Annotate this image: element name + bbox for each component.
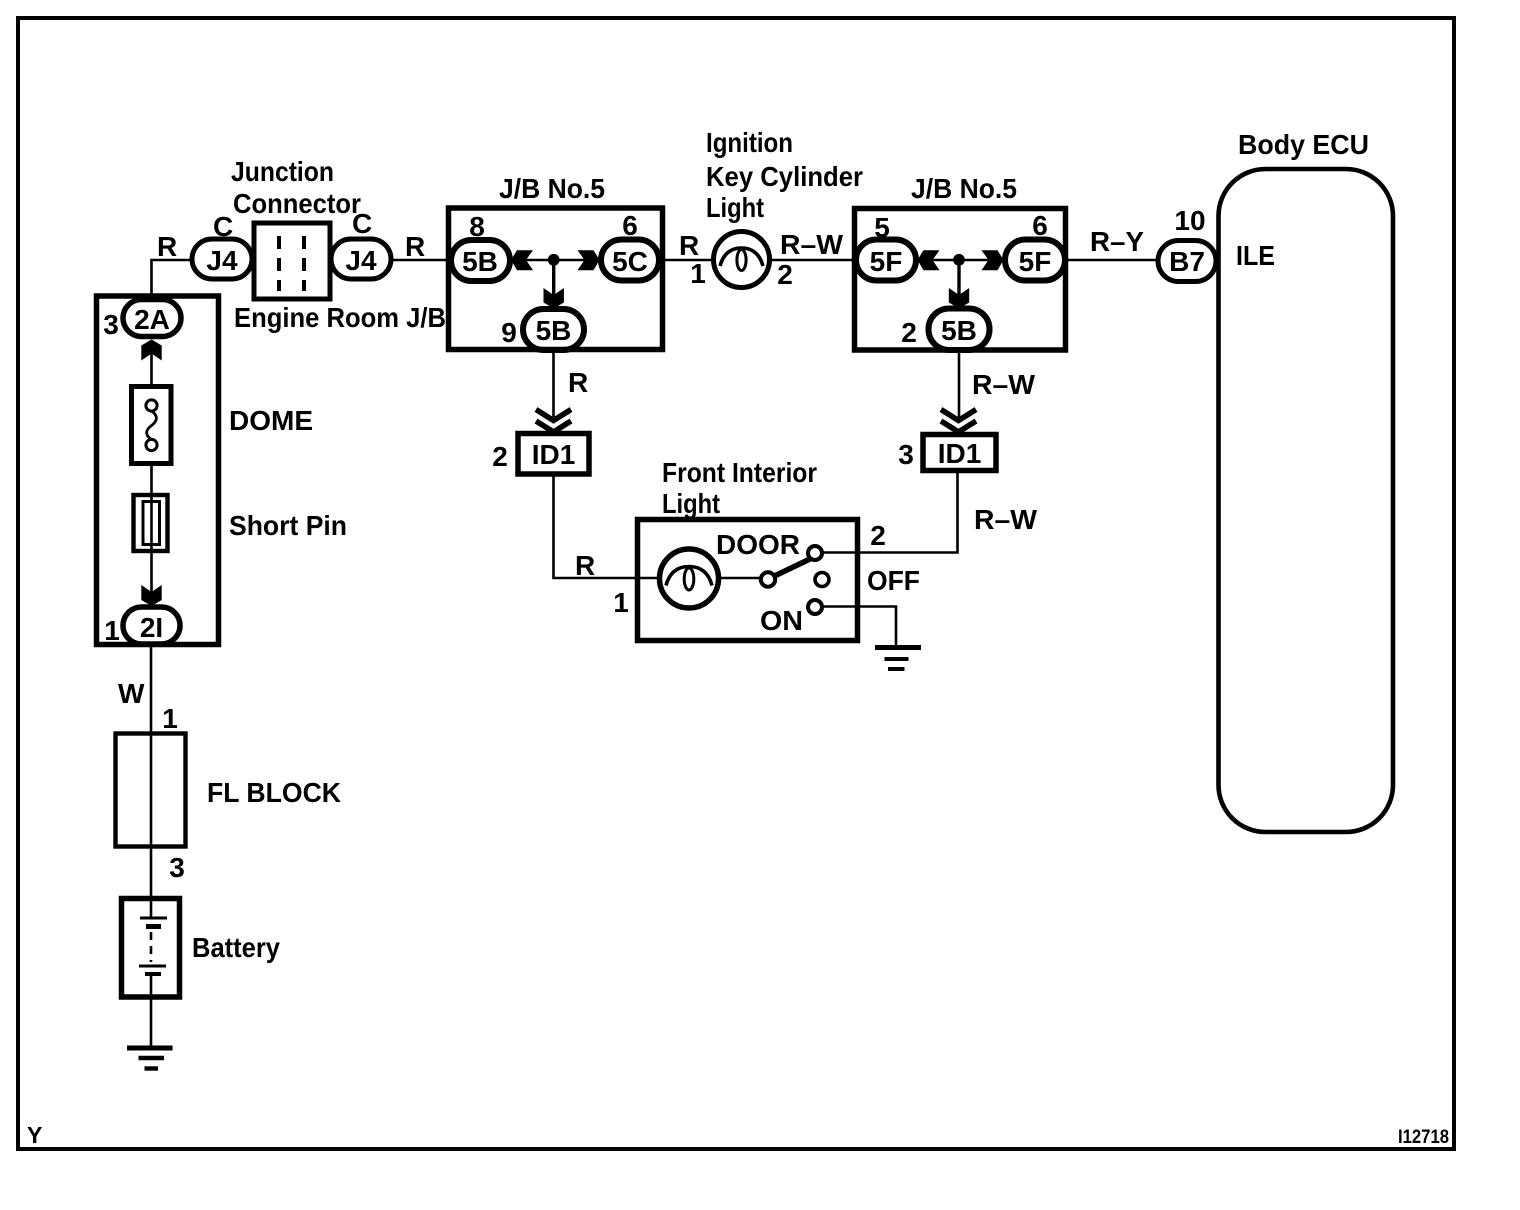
svg-text:2: 2	[492, 441, 508, 472]
FL BLOCK	[116, 734, 186, 847]
connector 5F pin 6	[1005, 240, 1065, 281]
label Short Pin	[229, 510, 347, 541]
front interior light box	[638, 520, 858, 641]
contact OFF	[815, 573, 829, 587]
svg-text:5F: 5F	[1019, 246, 1052, 277]
label DOOR	[716, 529, 800, 560]
svg-text:Body ECU: Body ECU	[1238, 129, 1369, 160]
Body ECU	[1219, 169, 1394, 832]
svg-text:ID1: ID1	[532, 439, 576, 470]
svg-text:5C: 5C	[612, 246, 648, 277]
arrow down toward 5B pin 9	[544, 288, 564, 309]
wire inside J/B 2	[916, 259, 1005, 262]
svg-text:5B: 5B	[462, 246, 498, 277]
label Junction Connector	[231, 156, 361, 219]
contact DOOR	[808, 546, 822, 560]
J/B No.5 box 1	[449, 208, 663, 350]
switch pivot contact	[761, 572, 775, 586]
pin 1	[690, 258, 706, 289]
label R	[568, 367, 588, 398]
pin 6	[622, 210, 638, 241]
label Y page code	[27, 1122, 42, 1148]
label C right	[352, 208, 372, 239]
arrow right toward 5F pin 6	[982, 250, 1004, 270]
svg-text:R: R	[679, 230, 699, 261]
wire inside J/B 1	[510, 259, 601, 262]
connector J4 right	[331, 239, 391, 279]
svg-text:C: C	[352, 208, 372, 239]
node junction dot	[548, 254, 560, 266]
node junction dot	[953, 254, 965, 266]
wire R from ID1 to front interior light	[554, 474, 639, 578]
pin 9	[501, 317, 517, 348]
connector 5B pin 8	[451, 240, 510, 281]
connector 2A pin 3	[123, 300, 181, 337]
label Front Interior Light	[662, 457, 817, 519]
svg-text:OFF: OFF	[867, 565, 920, 596]
svg-text:ILE: ILE	[1236, 240, 1275, 271]
svg-text:3: 3	[898, 439, 914, 470]
label R wire left	[157, 231, 177, 262]
svg-text:DOME: DOME	[229, 405, 313, 436]
svg-text:2: 2	[901, 317, 917, 348]
arrow right toward 5C	[578, 250, 600, 270]
wire R from junction connector J4 left to DOME 2A	[152, 260, 193, 301]
DOME relay box	[97, 296, 219, 645]
ground front interior light	[875, 648, 921, 670]
label C left	[213, 211, 233, 242]
svg-text:R: R	[405, 231, 425, 262]
svg-text:ID1: ID1	[938, 438, 982, 469]
svg-text:J4: J4	[206, 245, 238, 276]
label Body ECU	[1238, 129, 1369, 160]
svg-text:R–W: R–W	[974, 504, 1038, 535]
svg-text:J/B No.5: J/B No.5	[911, 173, 1017, 204]
label R wire	[405, 231, 425, 262]
svg-text:R: R	[575, 550, 595, 581]
wire W from 2I to FL BLOCK	[150, 644, 153, 734]
battery	[122, 899, 180, 998]
svg-text:R–W: R–W	[972, 369, 1036, 400]
svg-text:W: W	[118, 678, 145, 709]
junction connector box	[254, 223, 330, 299]
pin 1	[613, 587, 629, 618]
wire from dot down	[957, 260, 960, 296]
label W	[118, 678, 145, 709]
svg-text:1: 1	[104, 615, 120, 646]
pin 1	[104, 615, 120, 646]
arrow left toward 5F pin 5	[918, 250, 940, 270]
svg-text:B7: B7	[1169, 246, 1205, 277]
connector 5B pin 2	[929, 309, 990, 351]
connector chevrons above ID1	[536, 410, 571, 433]
connector 5C pin 6	[601, 240, 659, 281]
svg-text:10: 10	[1174, 205, 1205, 236]
label ON	[760, 605, 803, 636]
connector 5F pin 5	[856, 240, 916, 281]
wire battery to ground	[150, 997, 153, 1046]
wire ON contact to ground	[822, 607, 896, 646]
wire R from 5C to ignition lamp	[659, 259, 714, 262]
arrow up toward 2A	[141, 340, 161, 361]
label R	[679, 230, 699, 261]
pin 2	[870, 520, 886, 551]
arrow left toward 5B	[511, 250, 533, 270]
svg-text:DOOR: DOOR	[716, 529, 800, 560]
pin 3	[898, 439, 914, 470]
svg-text:Front Interior: Front Interior	[662, 457, 817, 488]
connector J4 left	[192, 239, 252, 279]
connector ID1 left	[518, 434, 589, 475]
svg-text:Short Pin: Short Pin	[229, 510, 347, 541]
svg-text:I12718: I12718	[1398, 1127, 1449, 1148]
svg-text:FL BLOCK: FL BLOCK	[207, 777, 341, 808]
label ILE	[1236, 240, 1275, 271]
pin 2	[492, 441, 508, 472]
pin 10	[1174, 205, 1205, 236]
svg-text:6: 6	[1032, 210, 1048, 241]
connector 2I pin 1	[123, 607, 180, 644]
pin 2	[901, 317, 917, 348]
wire R-W from lamp to J/B No.5	[770, 259, 858, 262]
svg-text:R: R	[568, 367, 588, 398]
svg-text:R–W: R–W	[780, 229, 844, 260]
switch blade	[775, 558, 813, 576]
svg-text:5B: 5B	[536, 315, 572, 346]
label DOME	[229, 405, 313, 436]
arrow down toward 5B pin 2	[949, 288, 969, 309]
wire R from J4 right to J/B No.5	[391, 259, 451, 262]
svg-text:Junction: Junction	[231, 156, 334, 187]
svg-text:Y: Y	[27, 1122, 42, 1148]
short pin	[134, 495, 168, 551]
svg-text:2I: 2I	[140, 612, 163, 643]
label R	[575, 550, 595, 581]
svg-text:J4: J4	[345, 245, 377, 276]
pin 8	[469, 211, 485, 242]
contact ON	[808, 600, 822, 614]
wire lamp right to switch pivot	[718, 577, 761, 580]
lamp front interior light	[660, 549, 719, 608]
label FL BLOCK	[207, 777, 341, 808]
svg-text:2: 2	[777, 259, 793, 290]
arrow down toward 2I	[141, 585, 161, 606]
connector ID1 right	[923, 435, 996, 471]
wire R-Y from 5F pin 6 to B7	[1065, 259, 1159, 262]
label J/B No.5	[499, 173, 605, 204]
label Ignition Key Cylinder Light	[706, 127, 863, 223]
svg-text:Light: Light	[662, 488, 720, 519]
svg-text:Light: Light	[706, 192, 764, 223]
label J/B No.5	[911, 173, 1017, 204]
svg-text:9: 9	[501, 317, 517, 348]
label Battery	[192, 932, 280, 963]
svg-text:ON: ON	[760, 605, 803, 636]
svg-text:6: 6	[622, 210, 638, 241]
connector B7 pin 10	[1158, 241, 1216, 282]
svg-text:1: 1	[162, 703, 178, 734]
wire R-W down from 5B pin 2	[958, 350, 961, 420]
svg-text:J/B No.5: J/B No.5	[499, 173, 605, 204]
pin 3	[169, 852, 185, 883]
connector 5B pin 9	[523, 309, 584, 350]
wire from dot down	[552, 260, 555, 296]
svg-text:Connector: Connector	[233, 188, 361, 219]
label R-W	[780, 229, 844, 260]
svg-text:Battery: Battery	[192, 932, 280, 963]
svg-text:5F: 5F	[870, 246, 903, 277]
svg-text:1: 1	[613, 587, 629, 618]
svg-text:Ignition: Ignition	[706, 127, 793, 158]
svg-text:1: 1	[690, 258, 706, 289]
pin 2	[777, 259, 793, 290]
label Engine Room J/B	[234, 302, 446, 333]
label OFF	[867, 565, 920, 596]
wire 2A to dome switch	[150, 340, 153, 387]
pin 3	[103, 309, 119, 340]
svg-text:3: 3	[103, 309, 119, 340]
wire lamp left to box edge	[638, 577, 660, 580]
svg-text:R–Y: R–Y	[1090, 226, 1144, 257]
wire R down from 5B pin 9	[552, 350, 555, 420]
label R-W	[972, 369, 1036, 400]
lamp ignition key cylinder light	[714, 232, 770, 288]
svg-text:2A: 2A	[134, 304, 170, 335]
ground battery	[127, 1048, 173, 1069]
wire dome switch to short pin	[150, 464, 153, 609]
svg-text:5B: 5B	[941, 315, 977, 346]
svg-text:3: 3	[169, 852, 185, 883]
label R-W	[974, 504, 1038, 535]
J/B No.5 box 2	[855, 209, 1066, 351]
svg-text:R: R	[157, 231, 177, 262]
svg-text:2: 2	[870, 520, 886, 551]
pin 1	[162, 703, 178, 734]
switch DOME	[132, 387, 172, 464]
svg-text:Key Cylinder: Key Cylinder	[706, 161, 863, 192]
connector chevrons above ID1 right	[941, 410, 976, 433]
svg-text:Engine Room J/B: Engine Room J/B	[234, 302, 446, 333]
wire FL BLOCK to battery	[150, 847, 153, 901]
label R-Y	[1090, 226, 1144, 257]
wire R-W from ID1 down to switch DOOR contact	[822, 471, 958, 553]
label I12718 figure code	[1398, 1127, 1449, 1148]
pin 6	[1032, 210, 1048, 241]
pin 5	[874, 212, 890, 243]
